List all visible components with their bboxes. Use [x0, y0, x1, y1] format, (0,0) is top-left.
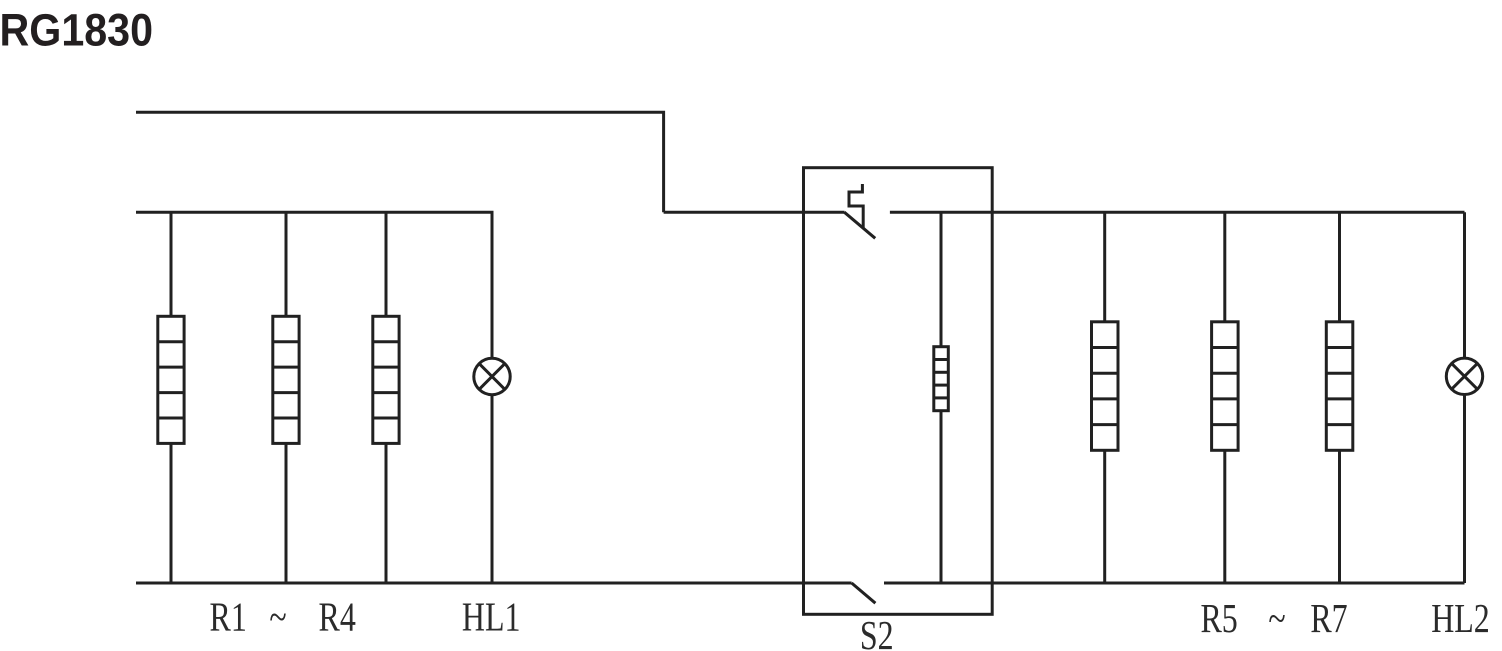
svg-text:HL2: HL2: [1431, 595, 1490, 641]
svg-text:RG1830: RG1830: [0, 5, 153, 56]
svg-text:HL1: HL1: [462, 594, 521, 640]
svg-text:S2: S2: [860, 612, 894, 651]
svg-text:R5: R5: [1200, 595, 1237, 641]
svg-text:~: ~: [1268, 595, 1285, 641]
svg-text:R4: R4: [319, 594, 356, 640]
svg-text:~: ~: [269, 594, 286, 640]
svg-text:R1: R1: [210, 594, 247, 640]
svg-text:R7: R7: [1310, 595, 1347, 641]
